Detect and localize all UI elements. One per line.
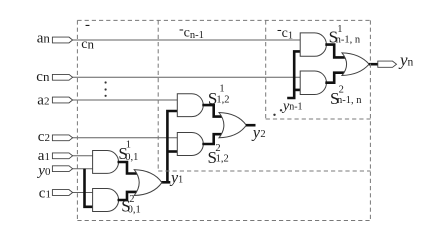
svg-text:2: 2 bbox=[339, 84, 344, 95]
svg-text:-c1: -c1 bbox=[277, 23, 293, 42]
svg-text:1: 1 bbox=[126, 140, 131, 151]
svg-text:an: an bbox=[37, 31, 51, 47]
svg-text:n-1, n: n-1, n bbox=[337, 95, 362, 106]
svg-text:y1: y1 bbox=[169, 170, 183, 187]
svg-text:a1: a1 bbox=[38, 148, 50, 164]
svg-text:0,1: 0,1 bbox=[128, 205, 141, 216]
svg-text:c2: c2 bbox=[38, 129, 50, 145]
svg-text:n-1, n: n-1, n bbox=[336, 34, 361, 45]
svg-text:cn: cn bbox=[36, 69, 50, 85]
svg-text:2: 2 bbox=[215, 143, 220, 154]
svg-text:1: 1 bbox=[219, 83, 224, 94]
svg-text:1,2: 1,2 bbox=[216, 95, 229, 106]
svg-text:y2: y2 bbox=[251, 125, 266, 142]
svg-text:y0: y0 bbox=[36, 163, 51, 179]
svg-text:2: 2 bbox=[129, 194, 134, 205]
svg-text:0,1: 0,1 bbox=[125, 152, 138, 163]
svg-text:yn: yn bbox=[398, 51, 414, 70]
svg-text:c1: c1 bbox=[39, 186, 51, 202]
svg-text:-: - bbox=[85, 17, 90, 33]
svg-text:1: 1 bbox=[337, 24, 342, 35]
svg-text:yn-1: yn-1 bbox=[281, 99, 303, 114]
svg-text:a2: a2 bbox=[37, 92, 49, 108]
svg-text:-cn-1: -cn-1 bbox=[179, 22, 204, 41]
svg-text:1,2: 1,2 bbox=[216, 154, 229, 165]
svg-text:cn: cn bbox=[81, 36, 94, 52]
